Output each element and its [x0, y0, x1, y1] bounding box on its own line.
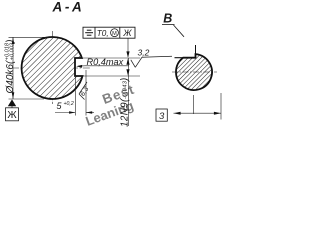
svg-text:-0,043: -0,043 [122, 80, 128, 99]
roughness 3,2 [131, 56, 172, 67]
keyway side wall (detail) [195, 45, 197, 58]
roughness 6,3 (rotated) [79, 82, 87, 100]
keyway extension line bottom [83, 75, 140, 77]
extension line top (Ø40) [9, 36, 51, 38]
svg-text:3: 3 [159, 111, 165, 122]
svg-text:B: B [163, 11, 172, 25]
leader line from B [174, 25, 185, 37]
extension line keyway depth right [85, 70, 87, 116]
dimension line 3 [174, 112, 222, 114]
extension line detail left [193, 95, 195, 114]
svg-text:T0,: T0, [97, 29, 109, 38]
dimension line 5+0,2 [55, 112, 75, 114]
svg-text:M: M [112, 31, 117, 37]
centerline horizontal (shaft section) [12, 67, 91, 69]
boxed dimension 3 [156, 109, 167, 121]
extension line keyway depth left [74, 77, 76, 116]
centerline horizontal (detail) [172, 71, 217, 73]
dimension text Ø40k6(+0,018/+0,002) [5, 40, 16, 95]
datum triangle [8, 99, 16, 106]
svg-text:A - A: A - A [52, 0, 82, 14]
extension line bottom (Ø40) [9, 98, 45, 100]
watermark [83, 82, 136, 129]
svg-text:12N9(: 12N9( [120, 97, 131, 127]
dimension text 12N9(-0,043) [120, 78, 131, 127]
extension line detail right [220, 93, 222, 120]
detail B circle (hatched) [176, 54, 212, 90]
FCF leader arrow to keyway [127, 38, 129, 57]
keyway extension line top [82, 57, 140, 59]
dimension line 12N9 [127, 58, 129, 126]
svg-text:R0,4max: R0,4max [87, 57, 124, 67]
svg-text:Ж: Ж [122, 28, 132, 38]
svg-text:Ж: Ж [7, 110, 17, 121]
shaft section outline with keyway (hatched) [22, 37, 83, 99]
svg-text:3,2: 3,2 [138, 48, 150, 58]
centerline vertical (shaft section) [52, 31, 54, 104]
svg-text:+0,2: +0,2 [64, 101, 74, 107]
symmetry symbol [85, 32, 93, 34]
datum box Zh [6, 108, 19, 121]
svg-text:): ) [5, 40, 16, 44]
dimension line Ø40k6 [12, 37, 14, 99]
svg-text:+0,002: +0,002 [10, 42, 16, 60]
svg-text:Ø40k6(: Ø40k6( [5, 59, 16, 94]
keyway bottom line (detail, extends left of circle) [175, 57, 184, 59]
svg-text:): ) [120, 78, 131, 82]
feature control frame (symmetry T0,1 M | Zh) [83, 27, 135, 38]
